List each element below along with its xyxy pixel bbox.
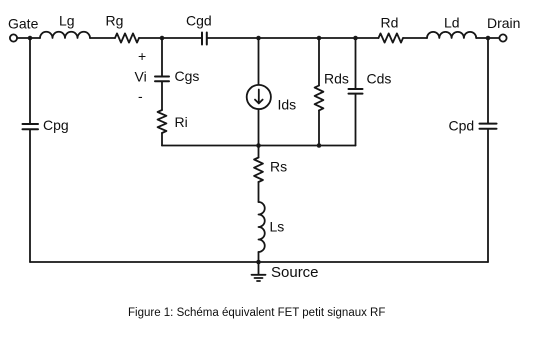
wire <box>90 37 115 39</box>
wire inner rail <box>162 145 356 147</box>
svg-text:Cgd: Cgd <box>186 13 212 29</box>
wire <box>258 182 260 202</box>
node A <box>160 36 165 41</box>
terminal Drain <box>499 34 506 41</box>
current source Ids <box>247 85 271 109</box>
wire <box>355 94 357 146</box>
resistor Rds <box>315 86 324 111</box>
node Rds top <box>317 36 322 41</box>
node source junction <box>256 260 261 265</box>
wire bottom rail <box>30 261 488 263</box>
svg-text:Ls: Ls <box>270 219 285 235</box>
wire <box>487 129 489 262</box>
wire <box>258 109 260 145</box>
wire <box>139 37 202 39</box>
wire <box>207 37 379 39</box>
svg-text:Rs: Rs <box>270 159 287 175</box>
wire <box>161 81 163 110</box>
svg-text:Drain: Drain <box>487 15 520 31</box>
inductor Ld <box>427 32 476 38</box>
svg-text:Cds: Cds <box>367 71 392 87</box>
resistor Rs <box>254 158 263 183</box>
resistor Rg <box>115 33 139 42</box>
svg-text:Rds: Rds <box>324 71 349 87</box>
capacitor Cgd <box>202 33 207 45</box>
svg-text:Rg: Rg <box>106 13 124 29</box>
svg-text:+: + <box>138 48 146 64</box>
svg-text:Vi: Vi <box>135 69 147 85</box>
svg-text:-: - <box>138 88 143 104</box>
wire <box>161 133 163 146</box>
svg-text:Ids: Ids <box>278 97 297 113</box>
wire <box>258 146 260 158</box>
node gate junction <box>28 36 33 41</box>
svg-text:Ri: Ri <box>175 114 188 130</box>
wire <box>258 38 260 85</box>
svg-text:Cpd: Cpd <box>449 118 475 134</box>
svg-text:Lg: Lg <box>59 13 75 29</box>
svg-text:Source: Source <box>271 264 319 281</box>
svg-text:Gate: Gate <box>8 16 39 32</box>
svg-text:Cpg: Cpg <box>43 117 69 133</box>
ground <box>252 262 266 281</box>
wire <box>487 38 489 123</box>
svg-text:Cgs: Cgs <box>175 68 200 84</box>
wire <box>29 38 31 124</box>
capacitor Cgs <box>155 77 169 82</box>
capacitor Cpg <box>23 124 39 129</box>
capacitor Cds <box>349 89 363 94</box>
resistor Rd <box>379 33 404 42</box>
node Ids bottom <box>256 143 261 148</box>
capacitor Cpd <box>480 124 497 129</box>
resistor Ri <box>158 110 167 133</box>
wire <box>17 37 40 39</box>
svg-text:Ld: Ld <box>444 15 460 31</box>
inductor Lg <box>40 32 90 38</box>
wire <box>29 129 31 262</box>
wire <box>318 110 320 145</box>
node Ids top <box>256 36 261 41</box>
terminal Gate <box>10 34 17 41</box>
wire <box>476 37 499 39</box>
wire <box>403 37 427 39</box>
wire <box>161 38 163 76</box>
svg-text:Figure 1: Schéma équivalent FE: Figure 1: Schéma équivalent FET petit si… <box>128 307 385 319</box>
node Cds top <box>353 36 358 41</box>
inductor Ls <box>259 202 265 252</box>
node drain junction <box>486 36 491 41</box>
wire <box>355 38 357 89</box>
wire <box>318 38 320 86</box>
svg-text:Rd: Rd <box>381 15 399 31</box>
wire <box>258 252 260 262</box>
node Rds bottom <box>317 143 322 148</box>
